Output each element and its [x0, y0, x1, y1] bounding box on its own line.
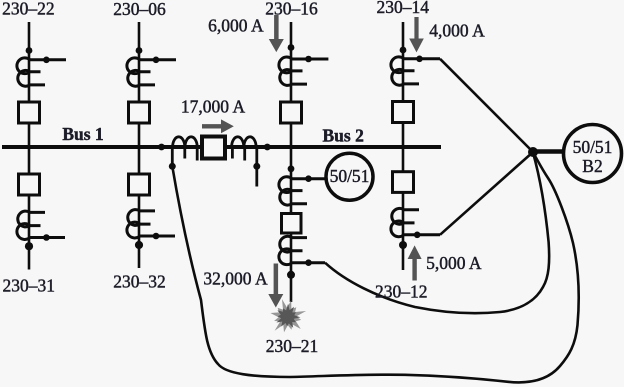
svg-text:17,000 A: 17,000 A	[181, 96, 246, 116]
svg-text:230–06: 230–06	[113, 0, 166, 19]
svg-text:230–16: 230–16	[265, 0, 318, 18]
svg-text:230–14: 230–14	[377, 0, 430, 17]
svg-text:5,000 A: 5,000 A	[426, 253, 482, 273]
svg-text:230–32: 230–32	[113, 271, 166, 291]
svg-text:B2: B2	[582, 156, 602, 176]
svg-text:4,000 A: 4,000 A	[429, 21, 485, 41]
svg-text:50/51: 50/51	[573, 137, 613, 157]
svg-text:Bus 2: Bus 2	[323, 126, 364, 146]
svg-text:Bus 1: Bus 1	[62, 124, 103, 144]
svg-text:230–21: 230–21	[266, 336, 319, 356]
svg-text:6,000 A: 6,000 A	[208, 15, 264, 35]
svg-text:230–12: 230–12	[375, 282, 428, 302]
svg-text:230–31: 230–31	[3, 275, 56, 295]
svg-text:50/51: 50/51	[330, 166, 370, 186]
svg-text:230–22: 230–22	[2, 0, 55, 19]
svg-text:32,000 A: 32,000 A	[203, 269, 268, 289]
